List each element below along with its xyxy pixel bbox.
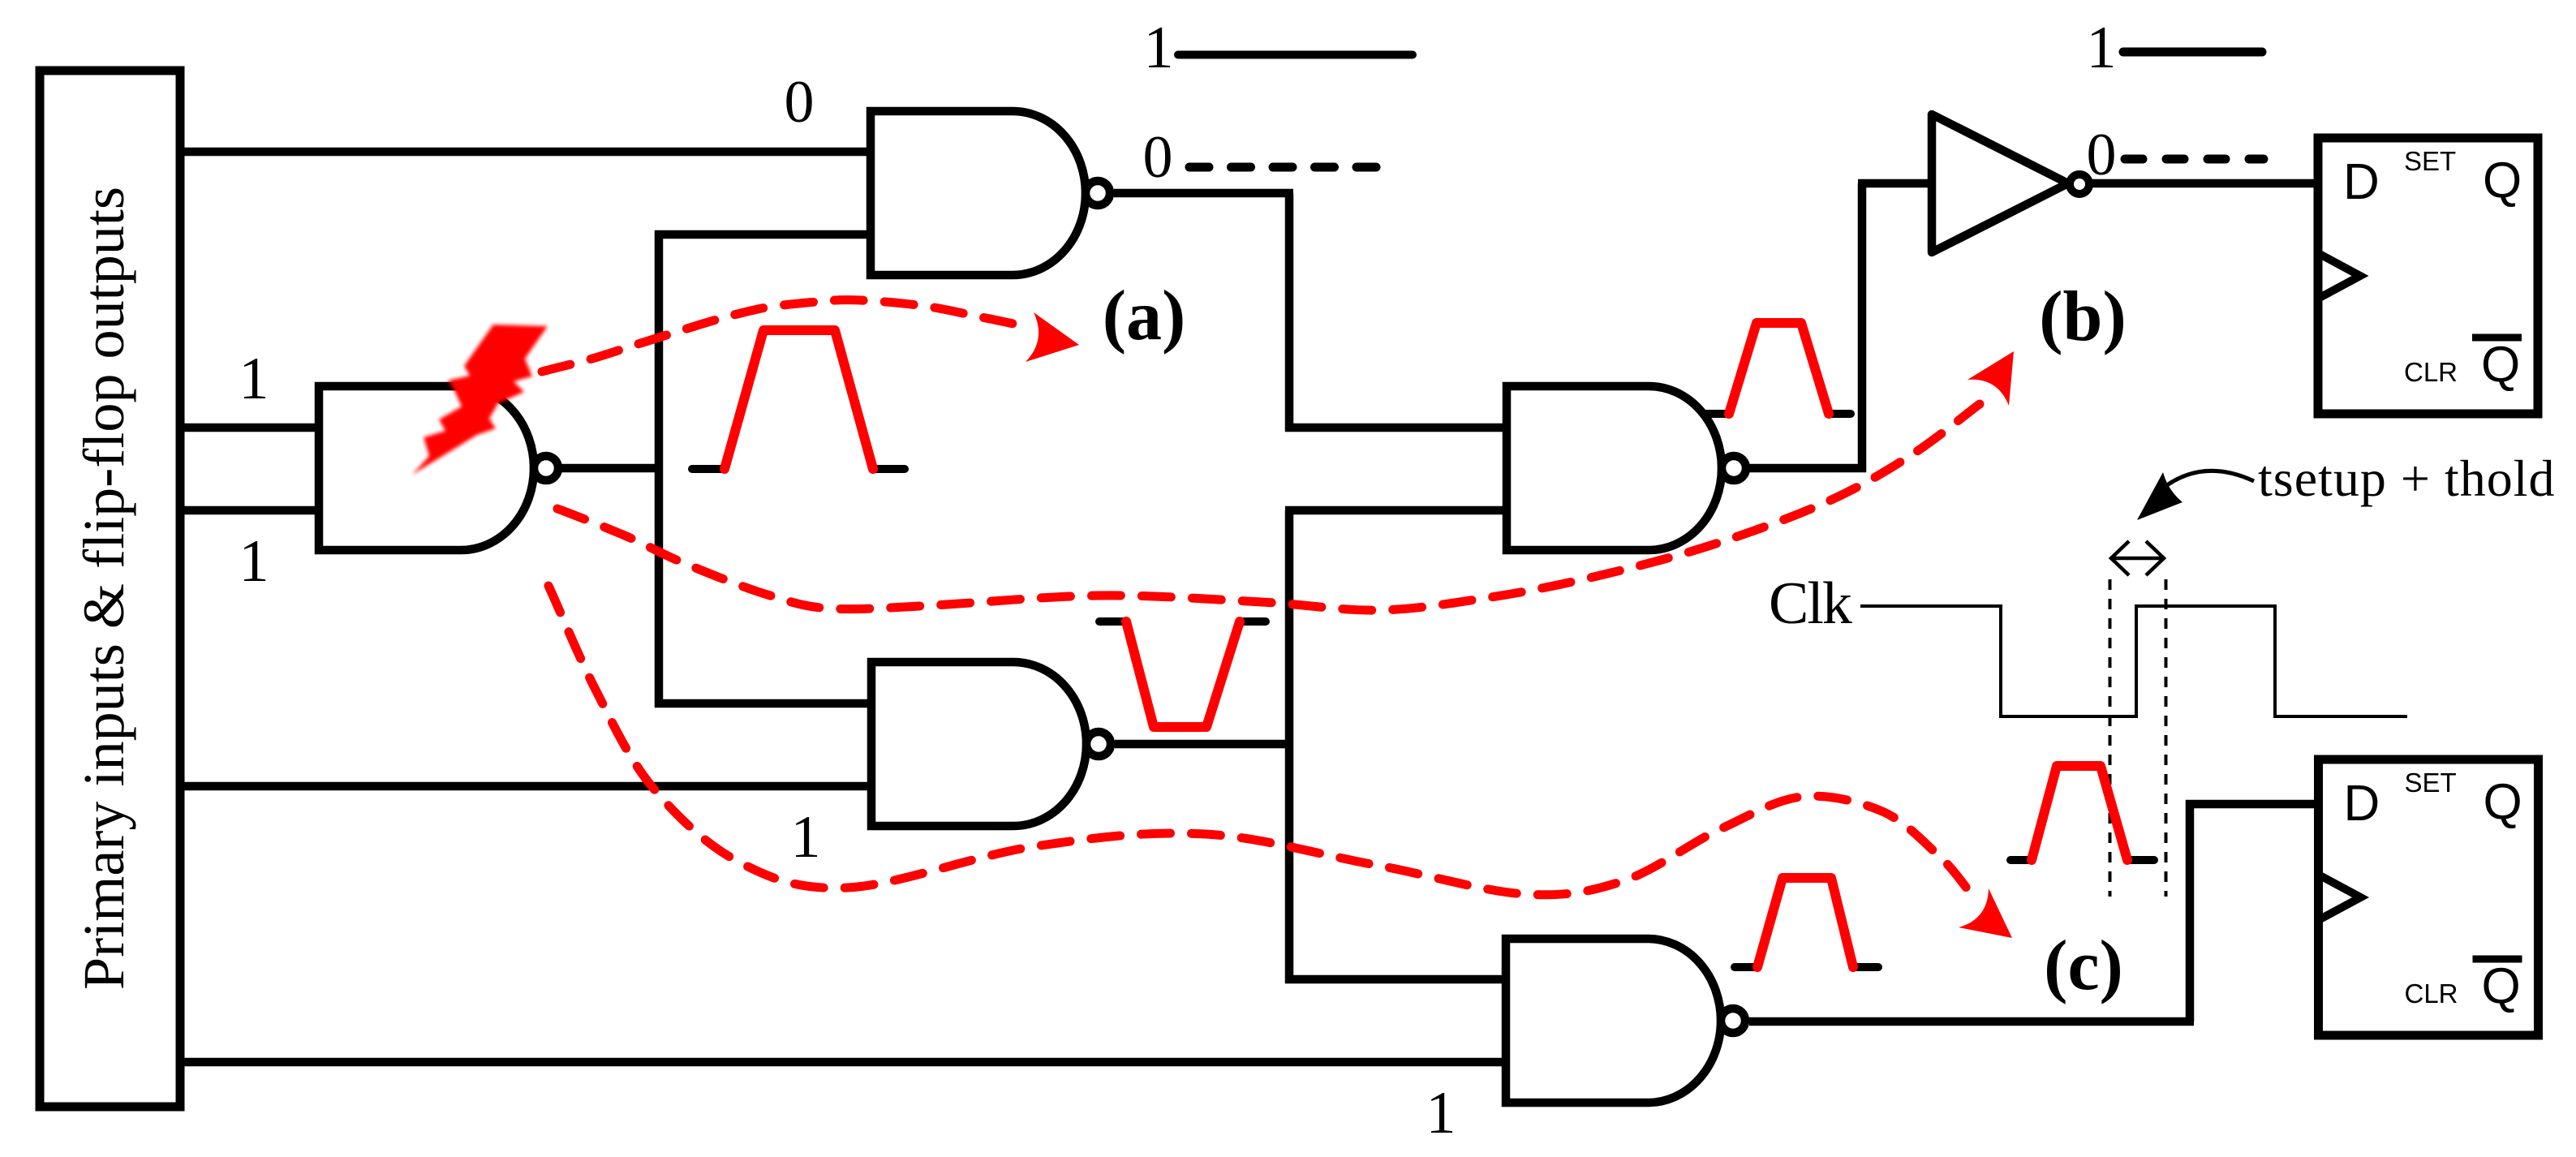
wire to NAND4 input A (1285, 424, 1507, 432)
dashed marker line t1 (2109, 579, 2112, 897)
wire inverter output to FF1 D (2088, 179, 2318, 188)
svg-text:Q: Q (2482, 958, 2521, 1014)
svg-text:Primary inputs & flip-flop out: Primary inputs & flip-flop outputs (71, 187, 136, 990)
double arrow tsetup window (2111, 541, 2164, 575)
D flip-flop FF1 (2318, 138, 2538, 414)
svg-text:tsetup + thold: tsetup + thold (2258, 449, 2556, 507)
wire W4 box to NAND3 input B (180, 782, 871, 791)
wire NAND3 output net vertical (1285, 510, 1294, 983)
wire W3 box to NAND1 input B (180, 506, 319, 515)
glitch path (b) dashed (557, 404, 1980, 610)
NAND gate U1 (glitch source) (319, 386, 558, 550)
glitch pulse P4 (2010, 766, 2154, 860)
lightning bolt glitch symbol (412, 325, 548, 475)
svg-text:Q: Q (2483, 153, 2522, 209)
wire to NAND5 input A (1285, 975, 1506, 984)
glitch path (c) dashed (548, 586, 1973, 897)
glitch pulse P1 (692, 330, 905, 469)
svg-text:SET: SET (2404, 146, 2456, 176)
svg-text:Q: Q (2481, 337, 2520, 393)
wire to FF2 D input (2186, 800, 2319, 809)
NAND gate U4 (middle right) (1507, 386, 1746, 550)
primary inputs box (40, 71, 180, 1107)
glitch pulse P2 (inverted) (1099, 622, 1266, 727)
wire vertical to inverter (1858, 183, 1867, 472)
svg-text:0: 0 (2087, 122, 2117, 188)
wire NAND1 output (561, 464, 663, 473)
inverter U6 (1932, 114, 2089, 252)
svg-text:Q: Q (2484, 774, 2522, 830)
clock waveform (1860, 606, 2407, 716)
svg-text:SET: SET (2405, 768, 2457, 798)
wire branch to top NAND input B (655, 230, 871, 239)
dashed marker line t2 (2165, 579, 2168, 897)
svg-text:1: 1 (1144, 15, 1174, 81)
wire vertical branch at x812 (655, 230, 664, 708)
wire to NAND4 input B (1285, 506, 1507, 515)
annotation arrow to window (2161, 471, 2254, 489)
svg-text:1: 1 (791, 804, 821, 871)
NAND gate U5 (bottom) (1506, 939, 1745, 1103)
svg-text:1: 1 (2087, 15, 2117, 81)
svg-text:(b): (b) (2039, 277, 2127, 356)
svg-text:Clk: Clk (1769, 570, 1852, 637)
svg-text:(c): (c) (2044, 927, 2123, 1005)
svg-text:D: D (2344, 776, 2380, 832)
svg-text:(a): (a) (1103, 277, 1186, 355)
wire NAND5 output (1749, 1017, 2194, 1026)
NAND gate U3 (lower middle) (871, 662, 1111, 826)
svg-text:0: 0 (1143, 124, 1173, 191)
wire NAND4 output (1749, 464, 1866, 473)
NAND gate U2 (top) (871, 111, 1110, 275)
glitch pulse P5 (1735, 878, 1878, 967)
wire W2 box to NAND1 input A (180, 424, 319, 432)
wire inverter input (1858, 179, 1932, 188)
wire W5 box to NAND5 input B (180, 1058, 1506, 1067)
svg-text:D: D (2343, 154, 2380, 210)
D flip-flop FF2 (2319, 759, 2539, 1035)
wire NAND3 output (1115, 740, 1289, 749)
svg-text:1: 1 (239, 346, 269, 412)
svg-text:1: 1 (1426, 1080, 1456, 1146)
svg-text:1: 1 (239, 528, 269, 595)
wire W1 box to top NAND input A (180, 148, 871, 157)
wire top NAND output (1114, 189, 1293, 198)
glitch path (a) dashed (542, 300, 1032, 372)
wire branch to NAND3 input A (655, 699, 871, 708)
svg-text:CLR: CLR (2405, 979, 2458, 1009)
svg-text:0: 0 (785, 69, 815, 135)
wire vertical to FF2 D (2186, 800, 2195, 1022)
glitch pulse P3 (1706, 323, 1851, 414)
wire vertical from top NAND output down (1285, 193, 1294, 432)
svg-text:CLR: CLR (2404, 357, 2458, 387)
